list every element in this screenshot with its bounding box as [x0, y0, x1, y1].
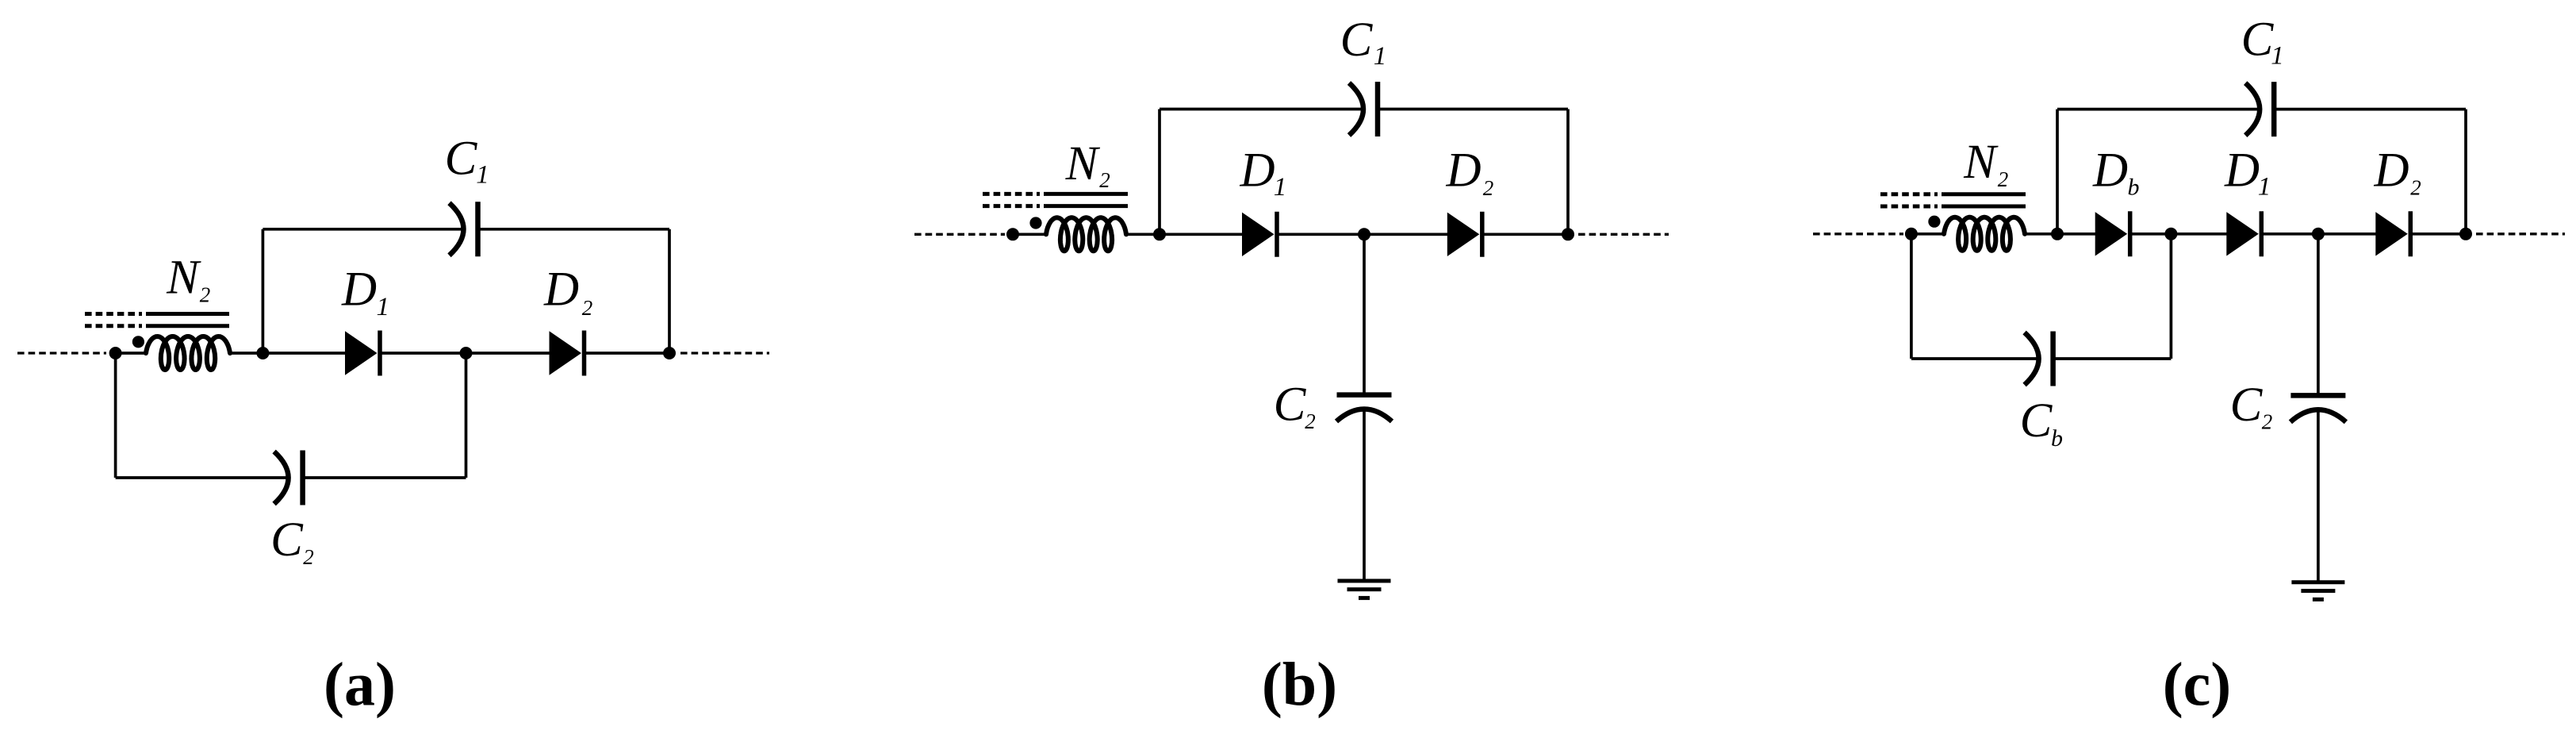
- wire: (b) node B to D2: [1364, 232, 1448, 236]
- wire: (c) C2 to ground: [2317, 411, 2320, 582]
- svg-text:1: 1: [1274, 173, 1287, 202]
- svg-text:N: N: [1065, 137, 1101, 190]
- transformer T (b) core lines: [1044, 192, 1128, 196]
- wire: (c) Db to node B: [2130, 232, 2172, 236]
- node: (a) input junction: [109, 347, 122, 359]
- wire: (a) bottom wire right of C2: [303, 476, 466, 479]
- svg-text:D: D: [1445, 144, 1481, 198]
- svg-text:D: D: [2092, 144, 2128, 198]
- svg-text:2: 2: [582, 296, 593, 320]
- capacitor Cb (c): [2025, 332, 2039, 385]
- node A: (a) top branch tap: [256, 347, 269, 359]
- wire: (b) vertical riser right: [1566, 110, 1570, 235]
- node A: (b) top branch tap: [1153, 228, 1166, 240]
- wire: (a) left drop to bottom loop: [114, 353, 117, 478]
- svg-text:b: b: [2128, 175, 2140, 201]
- node B: (a) mid junction: [460, 347, 473, 359]
- wire: (b) coil to node A: [1126, 232, 1160, 236]
- svg-text:C: C: [445, 133, 478, 186]
- wire: (c) dashed primary-side hint: [1880, 192, 1938, 196]
- transformer T (a) core lines: [146, 312, 229, 316]
- wire: (a) vertical riser right: [668, 229, 671, 353]
- wire: (c) dashed lead-in left: [1813, 232, 1903, 235]
- inductor N2 (b) secondary winding: [1046, 217, 1126, 251]
- capacitor C1 (c): [2245, 83, 2260, 136]
- wire: (c) node C down to C2: [2317, 234, 2320, 396]
- svg-text:(a): (a): [324, 650, 396, 719]
- wire: (c) node A to Db: [2057, 232, 2096, 236]
- diode Db (c): [2095, 212, 2128, 256]
- ground (c): [2291, 580, 2344, 584]
- node A: (c) top branch tap: [2051, 228, 2064, 240]
- wire: (a) main line node A to D1: [263, 352, 347, 355]
- svg-text:(b): (b): [1262, 650, 1337, 719]
- diode D2 (b): [1447, 213, 1480, 256]
- svg-text:D: D: [2224, 144, 2260, 198]
- svg-text:2: 2: [1483, 176, 1494, 200]
- inductor N2 (c) secondary winding: [1944, 217, 2025, 251]
- wire: (a) node B to D2: [466, 352, 551, 355]
- svg-text:D: D: [543, 263, 579, 317]
- wire: (c) left drop to Cb loop: [1910, 234, 1913, 359]
- ground (b): [1338, 579, 1391, 583]
- svg-text:2: 2: [1998, 167, 2009, 191]
- svg-text:C: C: [270, 513, 304, 567]
- wire: (a) dashed primary-side hint: [85, 312, 142, 316]
- wire: (a) bottom wire left of C2: [116, 476, 289, 479]
- svg-text:2: 2: [1099, 168, 1110, 192]
- wire: (b) D2 to node C: [1482, 232, 1568, 236]
- wire: (a) rise from bottom loop to node B: [465, 353, 468, 478]
- wire: (a) coil to node A: [230, 352, 263, 355]
- wire: (a) top wire left of C1: [263, 228, 463, 231]
- wire: (c) vertical riser left: [2056, 110, 2059, 234]
- wire: (c) D2 to node D: [2410, 232, 2466, 236]
- diode D1 (a): [345, 331, 378, 375]
- svg-text:2: 2: [1305, 409, 1316, 433]
- svg-text:b: b: [2051, 425, 2063, 452]
- svg-text:1: 1: [2258, 173, 2271, 202]
- wire: (c) top wire right of C1: [2274, 108, 2466, 111]
- svg-text:D: D: [1239, 144, 1275, 198]
- svg-text:1: 1: [476, 161, 489, 190]
- wire: (a) top wire right of C1: [478, 228, 670, 231]
- wire: (c) node C to D2: [2318, 232, 2377, 236]
- wire: (b) D1 to node B: [1277, 232, 1364, 236]
- node C: (c) mid junction: [2312, 228, 2325, 240]
- diode D2 (c): [2375, 212, 2408, 256]
- capacitor C2 (a): [274, 452, 289, 504]
- svg-text:1: 1: [2271, 42, 2284, 71]
- wire: (c) rise from Cb loop to node B: [2170, 234, 2173, 359]
- capacitor C2 (c): [2290, 393, 2345, 398]
- capacitor C2 (b): [1337, 392, 1392, 398]
- svg-text:1: 1: [377, 293, 390, 321]
- svg-text:N: N: [166, 252, 201, 305]
- node C: (b) output junction: [1562, 228, 1574, 240]
- wire: (c) Cb wire left of capacitor: [1911, 357, 2039, 360]
- wire: (a) D2 to node C: [585, 352, 670, 355]
- node: (c) input junction: [1905, 228, 1918, 240]
- wire: (a) dashed lead-out right: [680, 352, 769, 354]
- svg-text:2: 2: [2410, 176, 2421, 200]
- node C: (a) output junction: [663, 347, 676, 359]
- capacitor C1 (b): [1349, 83, 1363, 136]
- wire: (b) C2 to ground: [1363, 410, 1366, 581]
- wire: (b) top wire left of C1: [1160, 108, 1363, 111]
- svg-text:C: C: [1340, 13, 1374, 67]
- wire: (b) node B down to C2: [1363, 234, 1366, 394]
- wire: (a) D1 to node B: [380, 352, 466, 355]
- wire: (b) junction to coil: [1013, 232, 1047, 236]
- node: (b) input junction: [1006, 228, 1019, 240]
- wire: (c) junction to coil: [1911, 232, 1945, 236]
- diode D1 (b): [1242, 213, 1275, 256]
- wire: (c) dashed lead-out right: [2476, 232, 2565, 235]
- svg-text:D: D: [341, 263, 377, 317]
- transformer T (a) polarity dot: [132, 336, 144, 348]
- svg-text:C: C: [2241, 13, 2275, 67]
- wire: (c) D1 to node C: [2261, 232, 2318, 236]
- wire: (c) node B to D1: [2171, 232, 2228, 236]
- wire: (b) vertical riser left: [1158, 110, 1161, 235]
- transformer T (c) core lines: [1942, 192, 2026, 196]
- wire: (b) top wire right of C1: [1378, 108, 1568, 111]
- wire: (c) vertical riser right: [2464, 110, 2467, 234]
- svg-text:N: N: [1963, 136, 1999, 189]
- svg-text:2: 2: [2262, 410, 2273, 434]
- svg-text:1: 1: [1374, 42, 1387, 71]
- wire: (b) node A to D1: [1160, 232, 1244, 236]
- svg-text:C: C: [2230, 379, 2264, 432]
- node D: (c) output junction: [2459, 228, 2472, 240]
- svg-text:2: 2: [303, 545, 314, 569]
- node B: (c) junction after Db: [2164, 228, 2177, 240]
- svg-text:2: 2: [200, 283, 211, 307]
- wire: (b) dashed lead-in left: [914, 233, 1005, 236]
- wire: (b) dashed primary-side hint: [983, 192, 1040, 196]
- transformer T (c) polarity dot: [1928, 216, 1940, 228]
- transformer T (b) polarity dot: [1029, 217, 1041, 229]
- svg-text:C: C: [2020, 394, 2053, 448]
- wire: (b) dashed lead-out right: [1578, 233, 1669, 236]
- wire: (c) coil to node A: [2025, 232, 2057, 236]
- diode D2 (a): [550, 331, 582, 375]
- diode D1 (c): [2226, 212, 2259, 256]
- svg-text:(c): (c): [2163, 650, 2232, 719]
- inductor N2 (a) secondary winding: [146, 336, 230, 370]
- wire: (a) dashed lead-in left: [17, 352, 106, 354]
- wire: (c) Cb wire right of capacitor: [2053, 357, 2172, 360]
- wire: (a) vertical riser left: [262, 229, 265, 353]
- svg-text:D: D: [2373, 144, 2409, 198]
- wire: (a) junction to coil: [116, 352, 147, 355]
- svg-text:C: C: [1274, 379, 1307, 432]
- wire: (c) top wire left of C1: [2057, 108, 2260, 111]
- capacitor C1 (a): [450, 203, 464, 256]
- node B: (b) mid junction: [1358, 228, 1370, 240]
